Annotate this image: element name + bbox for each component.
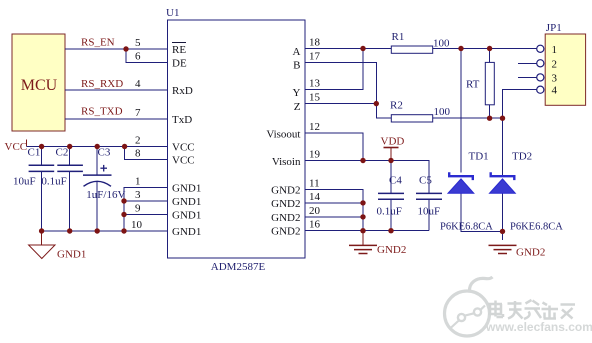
wire Z (pin 15) — [305, 103, 376, 105]
svg-text:U1: U1 — [166, 7, 179, 19]
svg-text:Visoin: Visoin — [272, 156, 301, 168]
svg-text:10uF: 10uF — [418, 206, 441, 218]
svg-text:VCC: VCC — [172, 142, 195, 154]
svg-text:1uF/16V: 1uF/16V — [86, 189, 125, 201]
svg-text:3: 3 — [552, 72, 558, 84]
svg-text:RS_RXD: RS_RXD — [81, 78, 123, 90]
wire GND1 bus (pins 1,3,9) — [124, 188, 168, 232]
svg-text:GND1: GND1 — [57, 249, 86, 261]
pin circle JP1-4 — [537, 86, 544, 93]
node VCC power port — [5, 140, 28, 154]
svg-text:4: 4 — [135, 78, 141, 90]
wire TD1 branch (from A line down) — [460, 49, 462, 173]
wire B down to Z — [305, 63, 391, 119]
svg-text:Y: Y — [293, 87, 301, 99]
svg-text:7: 7 — [135, 107, 141, 119]
wire A line (pin 18 to JP1-1) — [305, 48, 537, 50]
svg-text:100: 100 — [433, 38, 450, 50]
op chip U1 ADM2587E — [166, 7, 305, 273]
pin circle JP1-3 — [518, 74, 544, 81]
svg-text:GND2: GND2 — [271, 226, 300, 238]
pin circle JP1-1 — [537, 45, 544, 52]
svg-text:DE: DE — [172, 58, 187, 70]
capacitor C5 — [416, 175, 442, 231]
transient diode TD2 — [490, 151, 564, 233]
capacitor C2 — [41, 147, 83, 232]
svg-text:GND2: GND2 — [271, 198, 300, 210]
svg-text:13: 13 — [309, 78, 321, 90]
svg-text:B: B — [293, 60, 300, 72]
svg-text:P6KE6.8CA: P6KE6.8CA — [440, 222, 493, 233]
svg-text:1: 1 — [552, 44, 558, 56]
svg-text:0.1uF: 0.1uF — [377, 206, 402, 218]
wire Visoout joins Visoin — [305, 133, 363, 161]
svg-text:18: 18 — [309, 37, 321, 49]
svg-text:RS_EN: RS_EN — [81, 37, 115, 49]
svg-text:VCC: VCC — [172, 155, 195, 167]
svg-text:Visoout: Visoout — [266, 129, 300, 141]
svg-text:16: 16 — [309, 219, 321, 231]
svg-text:www.elecfans.com: www.elecfans.com — [485, 320, 592, 334]
svg-text:3: 3 — [135, 189, 141, 201]
svg-text:4: 4 — [552, 85, 558, 97]
svg-text:GND2: GND2 — [516, 247, 545, 259]
svg-text:C4: C4 — [389, 175, 402, 187]
svg-text:C2: C2 — [56, 147, 69, 159]
svg-text:A: A — [293, 46, 301, 58]
svg-text:2: 2 — [135, 135, 141, 147]
svg-text:JP1: JP1 — [546, 22, 562, 34]
wire pin6 branch riser — [126, 49, 168, 63]
svg-text:19: 19 — [309, 149, 321, 161]
svg-text:9: 9 — [135, 203, 141, 215]
resistor RT — [466, 49, 494, 119]
svg-text:0.1uF: 0.1uF — [41, 176, 66, 188]
wire VCC rail to pin 2 — [27, 146, 168, 148]
svg-text:8: 8 — [135, 148, 141, 160]
svg-text:20: 20 — [309, 205, 321, 217]
capacitor C4 — [377, 161, 405, 231]
wire VDD rail (pin19 to C5) — [305, 161, 429, 195]
resistor R2 — [390, 100, 451, 123]
svg-text:RxD: RxD — [172, 85, 193, 97]
wire pin 20 — [305, 216, 363, 218]
watermark logo — [445, 277, 493, 336]
wire GND1 bottom rail to pin 10 — [42, 230, 168, 232]
svg-text:GND2: GND2 — [377, 244, 406, 256]
svg-text:GND2: GND2 — [271, 185, 300, 197]
wire pin8 branch — [125, 147, 168, 160]
svg-text:VDD: VDD — [381, 136, 405, 148]
svg-text:11: 11 — [309, 178, 320, 190]
svg-text:10uF: 10uF — [13, 176, 36, 188]
svg-text:MCU: MCU — [21, 77, 58, 94]
ground GND1 — [29, 231, 87, 261]
svg-text:5: 5 — [135, 37, 141, 49]
svg-text:17: 17 — [309, 51, 321, 63]
wire pin 9 — [124, 214, 168, 216]
ground GND2 (right, under TVS) — [489, 245, 546, 258]
svg-text:C1: C1 — [28, 147, 41, 159]
svg-text:GND2: GND2 — [271, 212, 300, 224]
wire Y joins A — [305, 49, 363, 90]
wire R2 output to corner — [433, 117, 503, 119]
svg-text:Z: Z — [294, 101, 301, 113]
svg-text:GND1: GND1 — [172, 210, 201, 222]
svg-text:15: 15 — [309, 92, 321, 104]
pin circle JP1-2 — [518, 60, 544, 67]
node VDD power port — [381, 136, 405, 161]
wire RS_TXD (MCU to pin 7) — [65, 118, 168, 120]
wire JP1-4 riser and TD2 top — [503, 90, 537, 176]
svg-text:6: 6 — [135, 51, 141, 63]
svg-text:VCC: VCC — [5, 141, 28, 153]
svg-text:14: 14 — [309, 191, 321, 203]
svg-text:R2: R2 — [390, 100, 403, 112]
svg-text:TD1: TD1 — [469, 151, 489, 163]
wire RS_EN (MCU to pin 5) — [65, 48, 168, 50]
svg-text:R1: R1 — [392, 31, 405, 43]
pin name RE (overbar) — [172, 43, 186, 57]
ground GND2 (left, under chip) — [349, 231, 406, 256]
watermark text 电子发烧友 — [488, 300, 575, 319]
connector JP1 — [545, 22, 585, 105]
svg-text:ADM2587E: ADM2587E — [211, 261, 266, 273]
svg-text:C3: C3 — [98, 147, 111, 159]
svg-text:TxD: TxD — [172, 114, 192, 126]
svg-text:RS_TXD: RS_TXD — [81, 106, 123, 118]
svg-text:1: 1 — [135, 176, 141, 188]
svg-text:2: 2 — [552, 58, 558, 70]
wire TD1 bottom to TD2 — [461, 193, 503, 231]
wire pin 11 to GND2 bus — [305, 189, 363, 230]
wire pin 3 — [124, 200, 168, 202]
svg-text:TD2: TD2 — [512, 151, 532, 163]
svg-text:GND1: GND1 — [172, 183, 201, 195]
wire GND2 rail (pin16 to C5) — [305, 230, 429, 232]
svg-text:GND1: GND1 — [172, 196, 201, 208]
svg-text:C5: C5 — [419, 175, 432, 187]
resistor R1 — [391, 31, 450, 53]
wire RS_RXD (MCU to pin 4) — [65, 89, 168, 91]
svg-text:100: 100 — [434, 106, 451, 118]
svg-text:RT: RT — [466, 79, 480, 91]
wire pin 14 — [305, 202, 363, 204]
svg-text:10: 10 — [131, 219, 143, 231]
capacitor C3 (polarized) — [83, 147, 125, 232]
transient diode TD1 — [440, 151, 493, 233]
wire TD2 bottom to ground — [502, 193, 504, 240]
MCU block — [12, 34, 65, 131]
capacitor C1 — [13, 147, 54, 232]
svg-text:RE: RE — [172, 44, 186, 56]
svg-text:P6KE6.8CA: P6KE6.8CA — [510, 222, 563, 233]
svg-text:GND1: GND1 — [172, 226, 201, 238]
svg-text:12: 12 — [309, 121, 320, 133]
